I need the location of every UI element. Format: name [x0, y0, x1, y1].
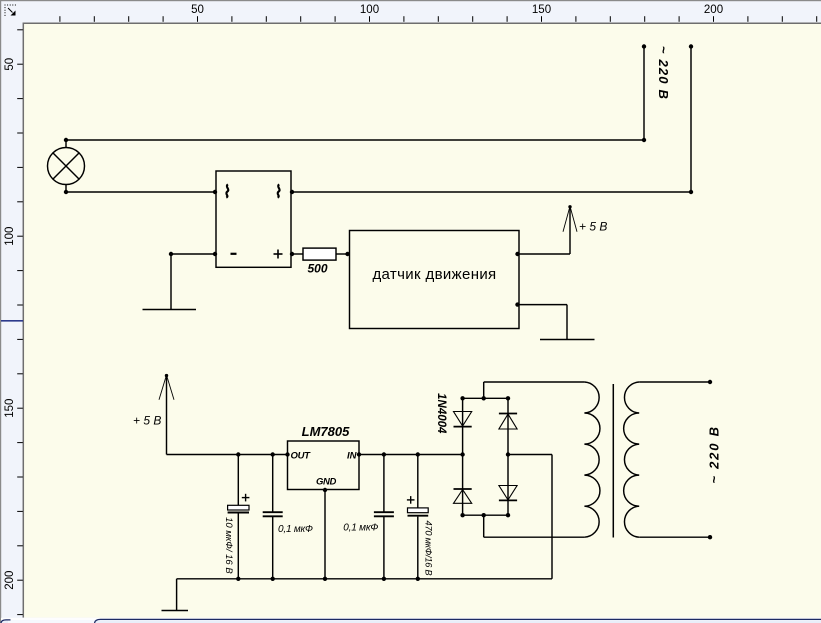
capacitor C1 10uF/16V: [223, 455, 249, 582]
svg-text:+ 5 В: + 5 В: [133, 414, 161, 428]
svg-text:~ 220 В: ~ 220 В: [706, 425, 721, 484]
svg-text:50: 50: [191, 4, 204, 16]
node bridge top: [460, 382, 510, 400]
diode VD3 1N4004 (right top): [499, 398, 517, 454]
wire sensor Vcc to +5V: [515, 206, 570, 256]
resistor R1 500: [303, 248, 336, 275]
svg-text:500: 500: [307, 262, 327, 276]
svg-text:200: 200: [704, 4, 723, 16]
capacitor C3 0.1uF: [343, 455, 394, 582]
transformer T1 primary winding: [584, 382, 600, 537]
svg-text:150: 150: [4, 399, 16, 418]
svg-text:датчик движения: датчик движения: [372, 266, 496, 283]
capacitor C4 470uF/16V: [407, 455, 434, 582]
wire bridge top to transformer primary: [484, 381, 585, 383]
svg-text:470 мкФ/16 В: 470 мкФ/16 В: [424, 521, 434, 576]
svg-text:LM7805: LM7805: [302, 424, 350, 439]
svg-text:OUT: OUT: [291, 450, 312, 461]
wire bridge bottom to transformer primary: [484, 536, 585, 538]
wire bridge AC2 to mains N: [290, 190, 691, 194]
label 1N4004: [435, 393, 447, 434]
node bridge bottom: [460, 513, 510, 537]
wire lamp top to mains L: [64, 138, 646, 142]
wire secondary bottom lead: [639, 535, 712, 539]
voltage regulator U1 LM7805: [288, 424, 360, 490]
wire bridge plus to R1: [290, 252, 303, 256]
bridge rectifier VD1: [216, 171, 291, 267]
wire IN pin to bridge DC+: [357, 452, 465, 456]
node bridge AC return: [506, 452, 552, 579]
supply arrow +5V (regulator output): [133, 374, 174, 455]
ruler corner icon: [5, 5, 18, 18]
ground GND1: [143, 309, 197, 311]
wire secondary top lead: [639, 380, 712, 384]
wire bottom ground rail: [177, 579, 552, 611]
top ruler: [59, 4, 817, 22]
diode VD2 1N4004 (left top): [454, 398, 472, 454]
wire mains N vertical: [689, 44, 693, 194]
svg-text:GND: GND: [316, 476, 336, 487]
ground GND2: [540, 339, 595, 341]
transformer T1 core: [612, 384, 614, 538]
svg-text:0,1 мкФ: 0,1 мкФ: [343, 523, 378, 534]
diode VD4 1N4004 (left bottom): [454, 455, 472, 516]
svg-text:0,1 мкФ: 0,1 мкФ: [278, 524, 313, 535]
svg-text:1N4004: 1N4004: [435, 393, 447, 434]
svg-text:150: 150: [532, 4, 551, 16]
capacitor C2 0.1uF: [263, 455, 313, 582]
label ~220V secondary: [706, 425, 721, 484]
wire sensor GND to ground: [515, 302, 567, 339]
lamp EL1: [48, 140, 85, 192]
svg-text:50: 50: [4, 58, 16, 71]
svg-text:100: 100: [360, 4, 379, 16]
bottom sheet-tab strip: [1, 618, 821, 623]
svg-text:+ 5 В: + 5 В: [579, 220, 607, 234]
motion sensor module U2: [350, 231, 520, 329]
wire bridge minus to ground: [169, 252, 217, 310]
left ruler: [4, 29, 23, 615]
svg-text:100: 100: [4, 227, 16, 246]
wire +5V rail to OUT pin: [167, 452, 290, 456]
transformer T1 secondary winding: [624, 382, 640, 537]
wire U1 GND pin to bottom rail: [323, 488, 327, 581]
ground GND3: [162, 610, 189, 612]
svg-text:10 мкФ/ 16 В: 10 мкФ/ 16 В: [223, 517, 234, 574]
svg-text:IN: IN: [347, 450, 358, 461]
ruler page marker: [1, 320, 23, 322]
wire R1 to sensor: [336, 252, 350, 256]
wire mains L vertical: [642, 44, 646, 140]
wire lamp bottom to bridge AC1: [64, 190, 217, 194]
supply arrow +5V (sensor): [563, 205, 607, 233]
svg-text:~ 220 В: ~ 220 В: [656, 46, 671, 100]
svg-text:200: 200: [4, 571, 16, 590]
label ~220V mains: [656, 46, 671, 100]
diode VD5 1N4004 (right bottom): [499, 455, 517, 516]
